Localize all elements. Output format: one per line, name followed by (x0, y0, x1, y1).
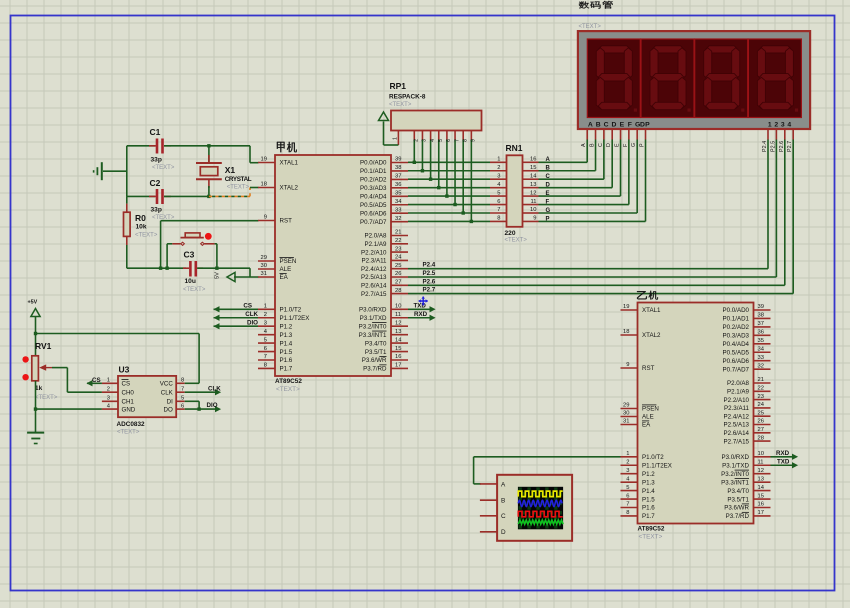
svg-text:CS: CS (92, 377, 101, 384)
wire segment P (539, 220, 646, 222)
svg-text:5: 5 (626, 485, 629, 491)
svg-text:3: 3 (264, 320, 267, 326)
svg-text:RST: RST (642, 365, 655, 372)
svg-text:TXD: TXD (777, 459, 790, 466)
wire RST (161, 220, 259, 222)
wire dashed to XTAL2 (209, 195, 250, 197)
svg-text:P0.4/AD4: P0.4/AD4 (360, 194, 387, 201)
svg-text:P2.6/A14: P2.6/A14 (361, 283, 387, 290)
wire P0.1 to RN1 (408, 170, 490, 172)
svg-text:<TEXT>: <TEXT> (183, 287, 206, 293)
svg-text:37: 37 (758, 321, 764, 327)
svg-text:2: 2 (626, 459, 629, 465)
svg-text:6: 6 (181, 403, 184, 409)
svg-text:5: 5 (497, 190, 500, 196)
svg-text:P3.6/WR: P3.6/WR (362, 357, 387, 364)
svg-text:P2.6: P2.6 (779, 141, 785, 152)
svg-text:XTAL1: XTAL1 (280, 160, 299, 167)
svg-text:F: F (628, 122, 632, 129)
svg-text:13: 13 (530, 182, 536, 188)
svg-text:10u: 10u (185, 278, 196, 285)
svg-text:P3.7/RD: P3.7/RD (726, 513, 750, 520)
svg-text:P1.3: P1.3 (642, 479, 655, 486)
svg-text:C3: C3 (184, 250, 195, 260)
terminal RXD master (408, 317, 431, 319)
digit cell 1 (587, 39, 640, 118)
terminal TXD slave (771, 464, 794, 466)
svg-text:12: 12 (530, 190, 536, 196)
svg-text:P0.5/AD5: P0.5/AD5 (723, 349, 750, 356)
terminal DIO U3 (185, 408, 216, 410)
wire RP1 pin1 (397, 131, 399, 146)
capacitor C2 (127, 195, 156, 197)
node XTAL2 junction (207, 195, 210, 198)
svg-text:19: 19 (261, 157, 267, 163)
svg-text:4: 4 (787, 122, 791, 129)
svg-text:P1.2: P1.2 (280, 323, 293, 330)
svg-text:35: 35 (758, 338, 764, 344)
svg-text:23: 23 (758, 394, 764, 400)
svg-text:3: 3 (781, 122, 785, 129)
svg-text:14: 14 (758, 485, 765, 491)
push button (181, 237, 204, 239)
svg-text:P2.4: P2.4 (423, 262, 436, 269)
svg-text:GND: GND (122, 406, 136, 413)
svg-text:15: 15 (395, 346, 401, 352)
scope screen (518, 487, 563, 530)
wire P0.4 to RN1 (408, 195, 490, 197)
svg-text:P1.2: P1.2 (642, 471, 655, 478)
svg-text:26: 26 (758, 419, 764, 425)
svg-text:P: P (640, 143, 646, 147)
svg-text:5: 5 (181, 396, 184, 402)
terminal CS master (214, 308, 259, 310)
svg-text:15: 15 (530, 165, 536, 171)
wire segment E (539, 195, 621, 197)
svg-text:P2.7/A15: P2.7/A15 (361, 291, 387, 298)
svg-text:CS: CS (243, 303, 252, 310)
svg-text:3: 3 (422, 139, 428, 142)
svg-text:3: 3 (626, 468, 629, 474)
display 4-digit 7SEG (578, 31, 810, 129)
wire U3 DI (185, 400, 199, 402)
svg-text:ADC0832: ADC0832 (117, 421, 146, 428)
svg-text:DIO: DIO (247, 320, 258, 327)
svg-text:EA: EA (642, 422, 651, 429)
svg-text:16: 16 (395, 354, 401, 360)
svg-text:P0.3/AD3: P0.3/AD3 (723, 333, 750, 340)
svg-text:E: E (620, 122, 625, 129)
svg-text:P1.0/T2: P1.0/T2 (280, 307, 302, 314)
power +5V terminal RP1 (383, 122, 385, 146)
wire RP1 pin4 (430, 131, 432, 140)
svg-text:2: 2 (264, 312, 267, 318)
svg-text:2: 2 (414, 139, 420, 142)
svg-text:P0.0/AD0: P0.0/AD0 (723, 307, 750, 314)
svg-text:XTAL1: XTAL1 (642, 307, 661, 314)
svg-text:6: 6 (626, 493, 629, 499)
ground terminal EA (227, 272, 235, 281)
label 甲机 (277, 142, 285, 152)
svg-text:XTAL2: XTAL2 (280, 185, 299, 192)
svg-text:6: 6 (264, 346, 267, 352)
svg-text:34: 34 (758, 346, 765, 352)
svg-text:P3.1/TXD: P3.1/TXD (722, 462, 749, 469)
svg-text:37: 37 (395, 174, 401, 180)
svg-text:P1.4: P1.4 (642, 488, 655, 495)
svg-text:39: 39 (395, 157, 401, 163)
svg-text:CH0: CH0 (122, 389, 135, 396)
svg-text:27: 27 (395, 280, 401, 286)
svg-text:33p: 33p (151, 207, 162, 214)
svg-text:+5V: +5V (28, 300, 38, 306)
svg-text:7: 7 (181, 386, 184, 392)
svg-text:DI: DI (167, 399, 173, 406)
svg-text:A: A (588, 122, 593, 129)
svg-text:33: 33 (395, 207, 401, 213)
svg-text:P3.0/RXD: P3.0/RXD (721, 454, 749, 461)
svg-text:PSEN: PSEN (642, 406, 659, 413)
waveform red (518, 511, 562, 517)
wire segment A (539, 161, 588, 163)
svg-text:ALE: ALE (280, 266, 292, 273)
svg-text:P3.4/T0: P3.4/T0 (727, 488, 749, 495)
svg-text:P0.3/AD3: P0.3/AD3 (360, 185, 387, 192)
svg-text:19: 19 (623, 304, 629, 310)
svg-text:2: 2 (774, 122, 778, 129)
svg-text:P1.6: P1.6 (642, 505, 655, 512)
svg-text:P1.6: P1.6 (280, 357, 293, 364)
svg-text:P3.3/INT1: P3.3/INT1 (721, 479, 749, 486)
svg-text:G: G (631, 143, 637, 147)
svg-text:<TEXT>: <TEXT> (152, 165, 175, 171)
wire RP1 pin5 (438, 131, 440, 140)
svg-text:P1.3: P1.3 (280, 332, 293, 339)
svg-text:AT89C52: AT89C52 (275, 378, 302, 385)
svg-text:U3: U3 (119, 365, 130, 375)
wire P0.7 to RN1 (408, 220, 490, 222)
svg-text:CS: CS (122, 381, 131, 388)
svg-text:30: 30 (623, 411, 629, 417)
svg-text:7: 7 (626, 502, 629, 508)
svg-text:CRYSTAL: CRYSTAL (225, 176, 252, 183)
svg-text:P2.5: P2.5 (423, 270, 436, 277)
svg-text:P3.6/WR: P3.6/WR (724, 505, 749, 512)
svg-text:P2.7: P2.7 (423, 287, 436, 294)
digit cell 2 (641, 39, 694, 118)
svg-text:B: B (590, 143, 596, 147)
wire RV1 bottom (35, 381, 37, 432)
svg-text:P0.6/AD6: P0.6/AD6 (723, 358, 750, 365)
svg-text:P1.1/T2EX: P1.1/T2EX (280, 315, 310, 322)
svg-text:10: 10 (395, 304, 401, 310)
svg-text:5: 5 (264, 337, 267, 343)
terminal CS U3 (87, 382, 102, 384)
wire RP1 pin3 (421, 131, 423, 140)
wire P0.2 to RN1 (408, 178, 490, 180)
svg-text:P2.6: P2.6 (423, 278, 436, 285)
svg-text:P3.2/INT0: P3.2/INT0 (359, 323, 387, 330)
svg-text:P0.1/AD1: P0.1/AD1 (723, 316, 750, 323)
svg-text:22: 22 (758, 386, 764, 392)
capacitor C1 (127, 145, 156, 147)
svg-text:38: 38 (758, 313, 764, 319)
svg-text:8: 8 (626, 510, 629, 516)
svg-text:P1.5: P1.5 (642, 496, 655, 503)
svg-text:3: 3 (497, 173, 500, 179)
waveform green (518, 520, 563, 524)
svg-text:39: 39 (758, 304, 764, 310)
svg-text:1: 1 (264, 304, 267, 310)
wire P0.0 to RN1 (408, 161, 490, 163)
svg-text:24: 24 (758, 402, 765, 408)
svg-text:B: B (596, 122, 601, 129)
label 数码管 (579, 1, 589, 8)
svg-text:10: 10 (758, 451, 764, 457)
svg-text:P2.4: P2.4 (762, 141, 768, 152)
svg-text:E: E (615, 143, 621, 147)
svg-text:22: 22 (395, 238, 401, 244)
svg-text:33: 33 (758, 355, 764, 361)
svg-text:<TEXT>: <TEXT> (389, 102, 412, 108)
svg-text:8: 8 (264, 363, 267, 369)
svg-text:C2: C2 (150, 178, 161, 188)
waveform yellow (518, 491, 562, 497)
wire button right (215, 243, 217, 245)
waveform blue (518, 500, 562, 507)
svg-text:P3.5/T1: P3.5/T1 (365, 349, 387, 356)
wire button left (167, 243, 172, 245)
terminal CLK master (214, 317, 259, 319)
svg-text:D: D (612, 122, 617, 129)
svg-text:DIO: DIO (207, 402, 218, 409)
wire U3 GND (36, 408, 102, 410)
svg-text:2: 2 (107, 386, 110, 392)
svg-text:A: A (501, 481, 506, 488)
svg-text:31: 31 (261, 271, 267, 277)
svg-text:15: 15 (758, 493, 764, 499)
svg-text:<TEXT>: <TEXT> (505, 238, 528, 244)
svg-text:1: 1 (393, 137, 399, 140)
svg-text:25: 25 (395, 263, 401, 269)
svg-text:11: 11 (530, 199, 536, 205)
svg-text:P2.2/A10: P2.2/A10 (361, 249, 387, 256)
svg-text:<TEXT>: <TEXT> (639, 534, 663, 541)
svg-text:11: 11 (758, 459, 764, 465)
svg-text:RV1: RV1 (35, 341, 52, 351)
svg-text:P0.7/AD7: P0.7/AD7 (360, 219, 387, 226)
svg-text:23: 23 (395, 246, 401, 252)
terminal DIO master (214, 325, 259, 327)
svg-text:P0.5/AD5: P0.5/AD5 (360, 202, 387, 209)
svg-text:18: 18 (623, 329, 629, 335)
wire digit 4 select (792, 129, 794, 140)
svg-text:RP1: RP1 (390, 81, 407, 91)
svg-text:P2.6/A14: P2.6/A14 (724, 430, 750, 437)
svg-text:<TEXT>: <TEXT> (135, 232, 158, 238)
svg-text:25: 25 (758, 410, 764, 416)
wire RP1 pin9 (470, 131, 472, 140)
svg-text:10: 10 (530, 207, 536, 213)
svg-text:1: 1 (768, 122, 772, 129)
svg-text:33p: 33p (151, 157, 162, 164)
wire segment C (539, 178, 604, 180)
svg-text:P0.1/AD1: P0.1/AD1 (360, 168, 387, 175)
wire VCC rail (36, 333, 200, 335)
svg-text:P2.5/A13: P2.5/A13 (724, 422, 750, 429)
wire RP1 pin8 (462, 131, 464, 140)
svg-text:P1.7: P1.7 (642, 513, 655, 520)
wire RP1 pin2 (413, 131, 415, 140)
wire (249, 146, 251, 163)
resistor pack RP1 (391, 111, 482, 131)
svg-text:16: 16 (758, 502, 764, 508)
wire P0.6 to RN1 (408, 212, 490, 214)
origin marker (419, 297, 428, 306)
svg-text:P3.4/T0: P3.4/T0 (365, 340, 387, 347)
svg-text:RST: RST (280, 218, 293, 225)
svg-text:D: D (606, 143, 612, 147)
wire segment F (539, 204, 629, 206)
svg-text:8: 8 (181, 378, 184, 384)
svg-text:P2.7: P2.7 (787, 141, 793, 152)
svg-text:RN1: RN1 (506, 143, 523, 153)
wire P0.5 to RN1 (408, 204, 490, 206)
svg-text:4: 4 (430, 139, 436, 142)
svg-text:R0: R0 (135, 213, 146, 223)
svg-text:16: 16 (530, 157, 536, 163)
svg-text:13: 13 (758, 476, 764, 482)
svg-text:B: B (501, 498, 505, 505)
svg-text:28: 28 (395, 288, 401, 294)
svg-text:38: 38 (395, 165, 401, 171)
svg-text:220: 220 (505, 230, 516, 237)
svg-text:P1.0/T2: P1.0/T2 (642, 454, 664, 461)
IC U2 AT89C52 slave (621, 303, 771, 541)
svg-text:14: 14 (530, 173, 537, 179)
svg-text:P3.0/RXD: P3.0/RXD (359, 307, 387, 314)
wire RP1 pin6 (446, 131, 448, 140)
svg-text:A: A (581, 143, 587, 147)
svg-text:ALE: ALE (642, 414, 654, 421)
svg-text:21: 21 (758, 377, 764, 383)
svg-text:32: 32 (395, 216, 401, 222)
svg-text:<TEXT>: <TEXT> (117, 430, 140, 436)
wire digit 3 select (784, 129, 786, 140)
svg-text:P0.7/AD7: P0.7/AD7 (723, 366, 750, 373)
resistor network RN1 (507, 155, 523, 227)
svg-text:11: 11 (395, 312, 401, 318)
oscilloscope (497, 475, 572, 541)
wire segment B (539, 170, 596, 172)
svg-text:P2.4/A12: P2.4/A12 (724, 413, 750, 420)
svg-text:36: 36 (758, 330, 764, 336)
IC U1 AT89C52 master (258, 155, 408, 393)
wire segment D (539, 187, 613, 189)
svg-text:36: 36 (395, 182, 401, 188)
svg-text:26: 26 (395, 271, 401, 277)
label 乙机 (637, 291, 647, 299)
svg-text:7: 7 (497, 207, 500, 213)
svg-text:29: 29 (261, 255, 267, 261)
svg-text:P1.4: P1.4 (280, 340, 293, 347)
svg-text:P3.2/INT0: P3.2/INT0 (721, 471, 749, 478)
svg-text:3: 3 (107, 396, 110, 402)
svg-text:14: 14 (395, 337, 402, 343)
node XTAL1 junction (207, 144, 210, 147)
svg-text:<TEXT>: <TEXT> (227, 185, 250, 191)
svg-text:AT89C52: AT89C52 (638, 526, 665, 533)
wire digit 1 select (767, 129, 769, 140)
svg-text:17: 17 (395, 363, 401, 369)
svg-text:9: 9 (626, 362, 629, 368)
svg-text:P2.1/A9: P2.1/A9 (364, 241, 387, 248)
svg-text:27: 27 (758, 427, 764, 433)
svg-text:18: 18 (261, 182, 267, 188)
svg-text:P2.0/A8: P2.0/A8 (364, 233, 387, 240)
svg-text:P1.7: P1.7 (280, 366, 293, 373)
svg-text:9: 9 (264, 215, 267, 221)
svg-text:P2.0/A8: P2.0/A8 (727, 380, 750, 387)
terminal CLK U3 (185, 391, 216, 393)
svg-text:5V: 5V (215, 272, 221, 279)
svg-text:P3.1/TXD: P3.1/TXD (360, 315, 387, 322)
svg-text:1: 1 (626, 451, 629, 457)
svg-text:9: 9 (533, 216, 536, 222)
svg-text:28: 28 (758, 435, 764, 441)
svg-text:17: 17 (758, 510, 764, 516)
svg-text:DP: DP (640, 122, 650, 129)
svg-text:<TEXT>: <TEXT> (276, 386, 300, 393)
wire P1.0 slave to scope (474, 456, 621, 458)
svg-text:P0.2/AD2: P0.2/AD2 (360, 177, 387, 184)
svg-text:13: 13 (395, 329, 401, 335)
svg-text:5: 5 (438, 139, 444, 142)
svg-text:P2.7/A15: P2.7/A15 (724, 438, 750, 445)
svg-text:C: C (604, 122, 609, 129)
svg-text:9: 9 (471, 139, 477, 142)
svg-text:7: 7 (454, 139, 460, 142)
svg-text:6: 6 (497, 199, 500, 205)
svg-text:2: 2 (497, 165, 500, 171)
svg-text:P2.5/A13: P2.5/A13 (361, 274, 387, 281)
svg-text:PSEN: PSEN (280, 258, 297, 265)
resistor R0 (124, 212, 131, 236)
svg-text:P2.2/A10: P2.2/A10 (724, 397, 750, 404)
svg-text:P3.3/INT1: P3.3/INT1 (359, 332, 387, 339)
svg-text:P2.3/A11: P2.3/A11 (362, 258, 388, 265)
svg-text:7: 7 (264, 354, 267, 360)
svg-text:12: 12 (758, 468, 764, 474)
digit cell 4 (748, 39, 801, 118)
wire RP1 pin7 (454, 131, 456, 140)
svg-text:24: 24 (395, 255, 402, 261)
svg-text:RXD: RXD (414, 311, 428, 318)
svg-text:DO: DO (164, 406, 173, 413)
svg-text:8: 8 (497, 216, 500, 222)
svg-text:34: 34 (395, 199, 402, 205)
digit cell 3 (695, 39, 748, 118)
wire segment G (539, 212, 638, 214)
svg-text:31: 31 (623, 419, 629, 425)
svg-text:P1.5: P1.5 (280, 349, 293, 356)
wire U3 VCC (185, 382, 199, 384)
svg-text:35: 35 (395, 191, 401, 197)
ADC U3 (118, 376, 176, 417)
svg-text:P3.5/T1: P3.5/T1 (727, 496, 749, 503)
svg-text:C: C (501, 513, 506, 520)
svg-text:P2.5: P2.5 (770, 141, 776, 152)
